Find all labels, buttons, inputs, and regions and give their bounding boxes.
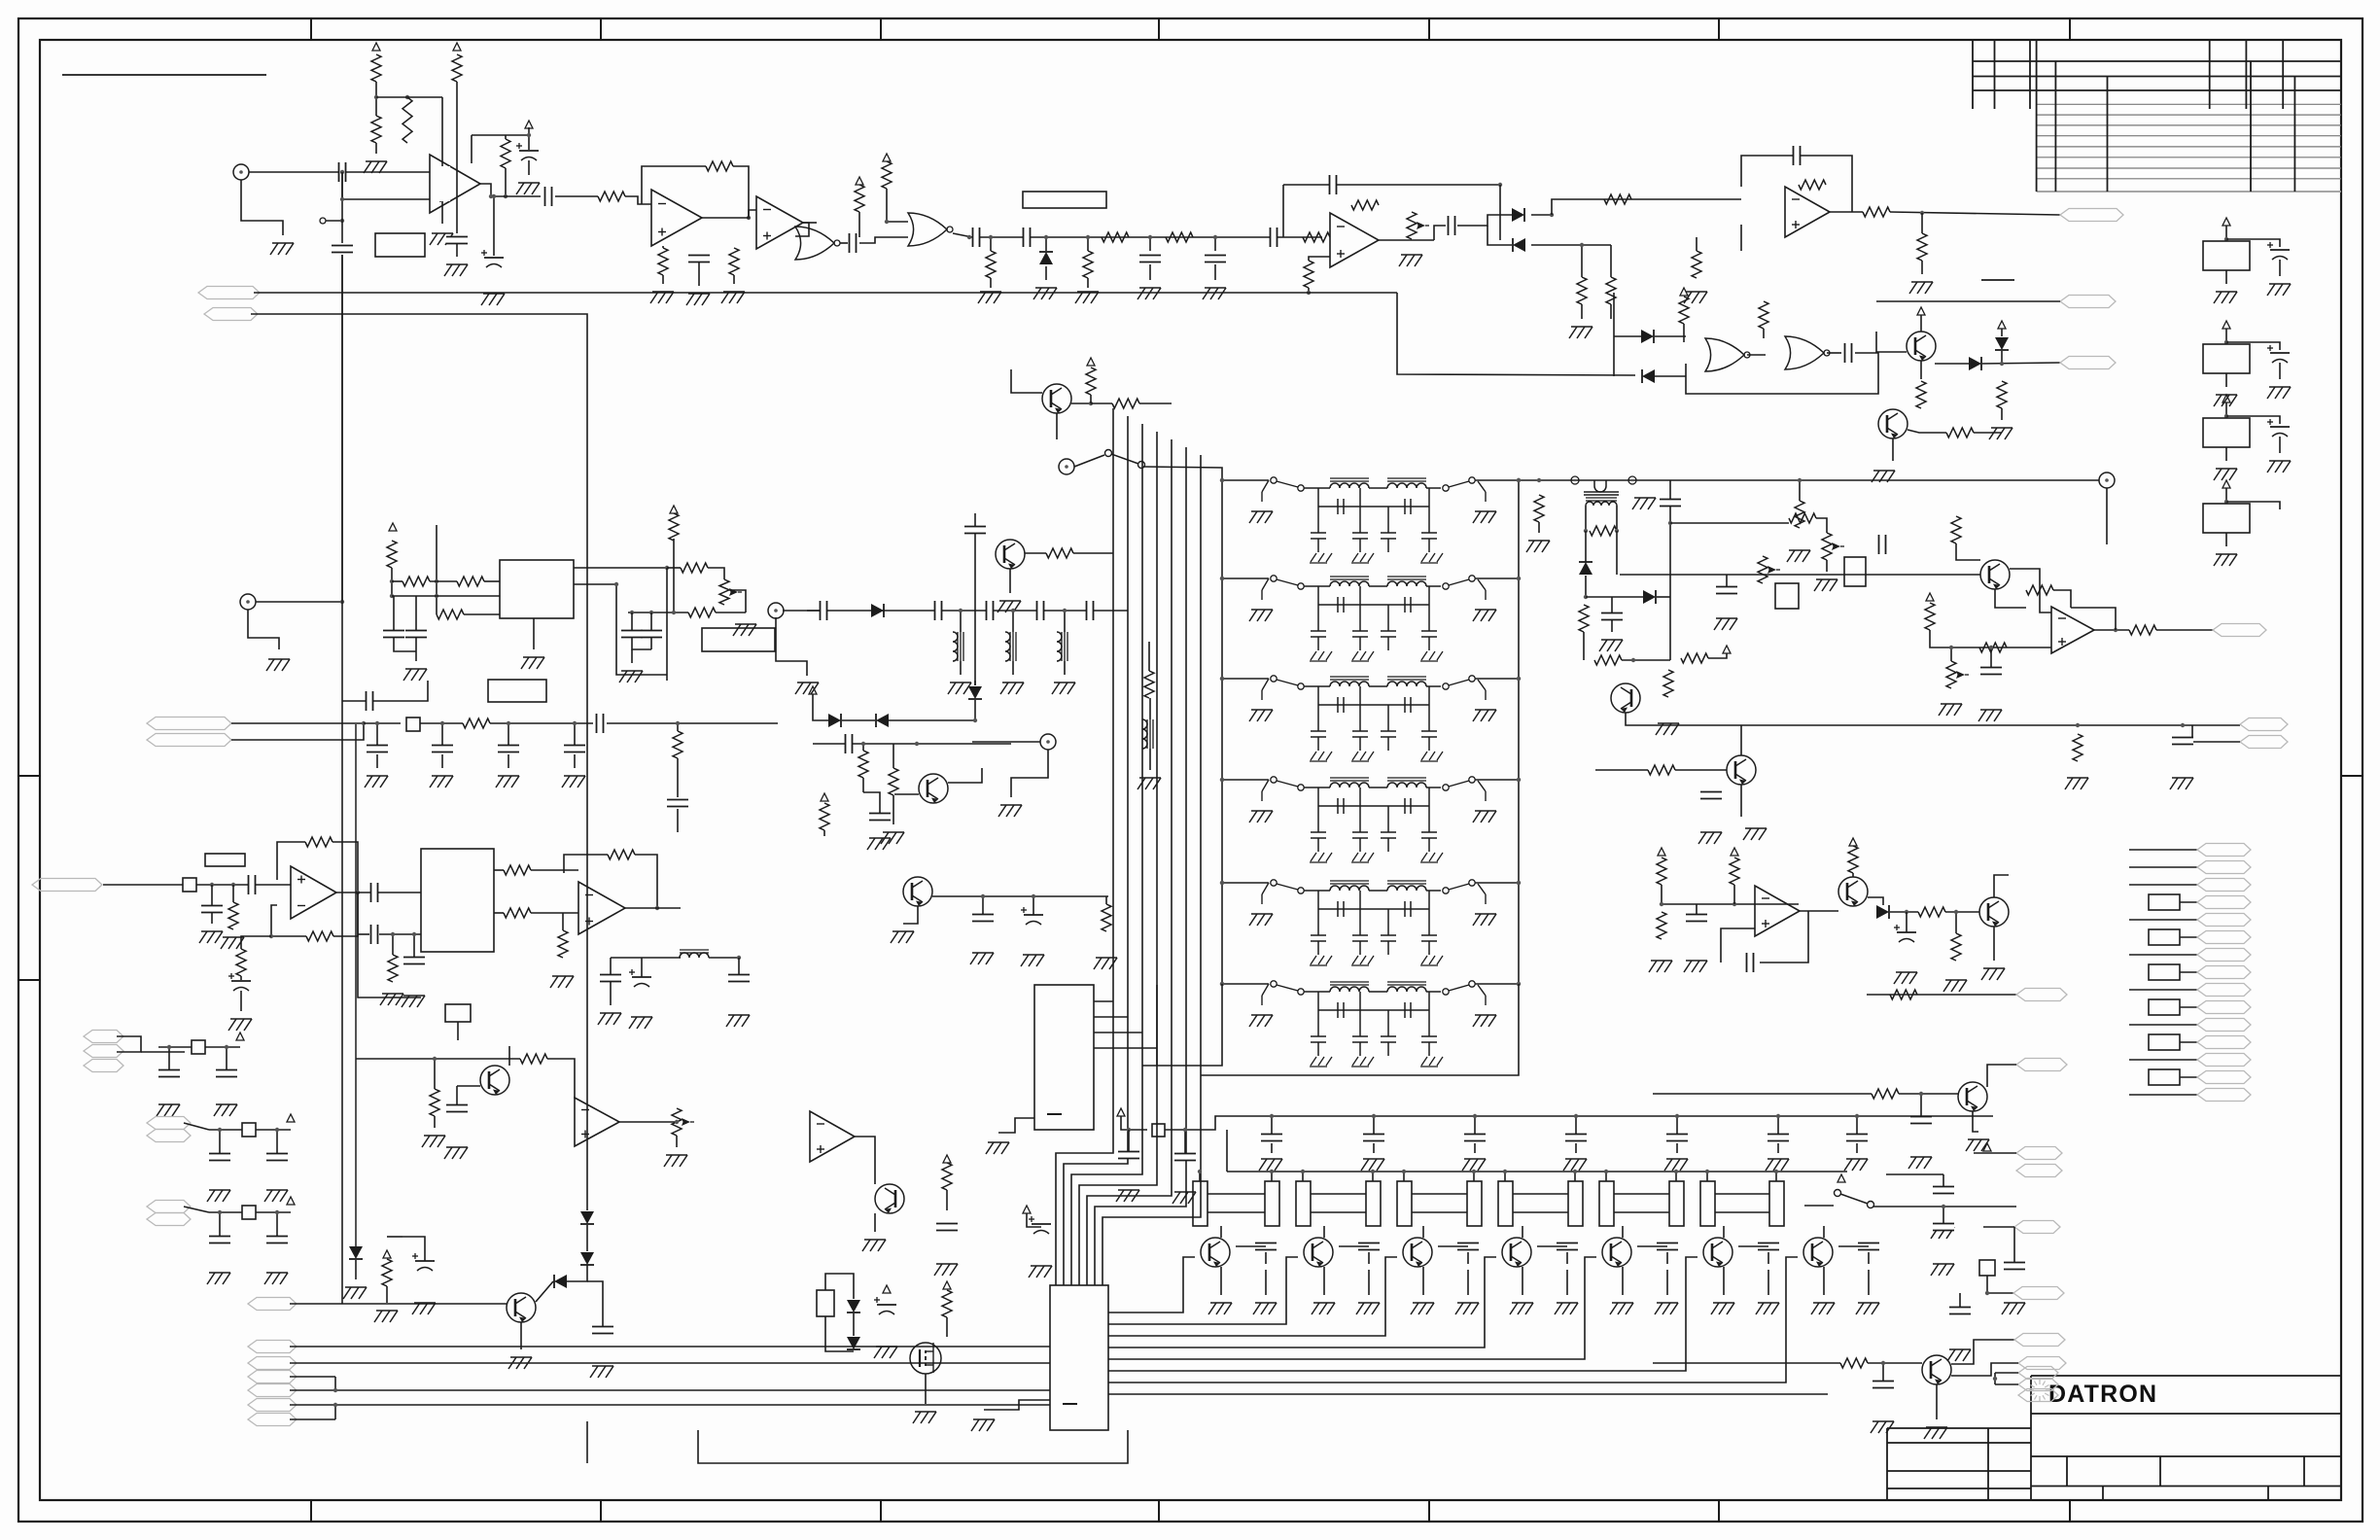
ground — [1766, 1159, 1789, 1171]
junction — [269, 934, 273, 938]
wire — [2226, 502, 2280, 509]
border tick left — [18, 775, 40, 777]
wire — [326, 220, 342, 222]
wire — [1868, 1362, 1922, 1364]
wire — [2013, 1227, 2015, 1263]
wire — [1683, 324, 1685, 342]
net tag N14 — [2197, 949, 2251, 962]
resistor R33 — [1663, 670, 1673, 697]
wire — [863, 792, 880, 814]
wire — [1308, 288, 1310, 293]
wire — [209, 1129, 242, 1131]
ground — [266, 659, 290, 671]
transistor Q15 — [1502, 1238, 1531, 1267]
net tag N3 — [2060, 357, 2116, 369]
resistor R47 — [2129, 625, 2156, 635]
ground — [986, 1142, 1009, 1154]
wire — [960, 611, 962, 632]
capacitor C1 — [446, 237, 468, 244]
ground — [1249, 811, 1273, 822]
junction — [507, 721, 510, 725]
wire — [729, 590, 746, 612]
capacitor C47 — [367, 691, 373, 711]
line notch — [1594, 480, 1606, 492]
wire — [1079, 432, 1157, 1285]
junction — [391, 932, 395, 936]
junction — [1270, 1170, 1274, 1173]
wire — [1800, 910, 1838, 912]
wire — [1011, 369, 1042, 393]
wire — [507, 723, 509, 745]
junction — [1402, 1170, 1406, 1173]
wire — [336, 892, 421, 893]
junction — [2114, 628, 2117, 632]
wire — [1566, 1252, 1568, 1264]
capacitor C57 — [1021, 907, 1043, 925]
wire — [1675, 769, 1727, 771]
junction — [1881, 1361, 1885, 1365]
junction — [672, 611, 676, 614]
junction — [1517, 478, 1521, 482]
wire — [2180, 971, 2197, 973]
wire — [974, 700, 976, 720]
junction — [861, 742, 865, 746]
net tag N39 — [2013, 1287, 2064, 1300]
wire — [1614, 1211, 1669, 1213]
capacitor C17 — [1845, 343, 1852, 363]
wire — [1993, 927, 1995, 961]
wire — [290, 1376, 335, 1378]
title underline — [62, 74, 266, 76]
resistor R55 — [463, 718, 490, 728]
diode D16 — [847, 1337, 860, 1349]
filter stage FL4 — [1220, 777, 1521, 862]
ground — [1649, 961, 1672, 972]
resistor R13 — [1303, 232, 1330, 242]
diode D9 — [871, 604, 884, 617]
net tag N30 — [248, 1371, 297, 1383]
wire — [1227, 1171, 1847, 1172]
junction — [573, 721, 577, 725]
net tag N48 — [147, 1117, 191, 1130]
wire — [709, 957, 739, 959]
junction — [1580, 243, 1584, 247]
net tag N2 — [2060, 296, 2116, 308]
net tag N43 — [2018, 1379, 2058, 1391]
wire — [434, 1059, 436, 1089]
component box Z17 — [406, 717, 420, 731]
resistor R61 — [388, 955, 398, 982]
wire — [1056, 408, 1113, 1285]
junction — [649, 611, 653, 614]
junction — [2224, 414, 2228, 418]
junction — [655, 906, 659, 910]
wire — [1920, 361, 1922, 379]
junction — [1675, 1114, 1679, 1118]
wire — [1108, 1257, 1798, 1382]
junction — [340, 170, 344, 174]
wire — [1823, 1267, 1825, 1295]
capacitor C62 — [874, 1297, 896, 1314]
wire — [628, 612, 688, 613]
component box Z26 — [1152, 1124, 1165, 1137]
diode D20 — [554, 1275, 567, 1288]
capacitor C88 — [1872, 1382, 1894, 1388]
resistor R79 — [942, 1163, 952, 1190]
wire — [332, 842, 358, 892]
wire — [1696, 237, 1697, 251]
resistor R59 — [306, 931, 333, 941]
junction — [1498, 183, 1502, 187]
wire — [698, 1430, 1128, 1463]
wire — [1309, 257, 1330, 261]
resistor R58 — [305, 837, 332, 847]
junction — [1063, 609, 1067, 612]
diode D11 — [876, 714, 889, 727]
junction — [1776, 1114, 1780, 1118]
gate G3 — [1705, 338, 1750, 371]
junction — [167, 1045, 171, 1049]
wire — [430, 580, 457, 582]
ground — [1814, 579, 1837, 591]
junction — [1942, 1205, 1945, 1208]
switch S0 — [320, 218, 326, 224]
power +V — [287, 1197, 295, 1205]
transistor Q3 — [1611, 683, 1640, 713]
wire — [1221, 480, 1223, 984]
resistor R40 — [1918, 907, 1945, 917]
capacitor C59 — [1660, 500, 1681, 507]
net tag N25 — [32, 879, 102, 892]
wire — [1611, 597, 1613, 612]
wire — [1271, 1172, 1273, 1181]
component box Z13 — [2149, 1034, 2180, 1050]
junction — [1044, 235, 1048, 239]
wire — [1827, 352, 1841, 354]
junction — [405, 95, 409, 99]
junction — [1307, 291, 1311, 295]
wire — [1740, 225, 1742, 251]
wire — [574, 754, 576, 768]
ground — [207, 1273, 230, 1284]
capacitor C91 — [209, 1154, 230, 1161]
junction — [1920, 211, 1924, 215]
resistor R49 — [402, 577, 430, 586]
wire — [667, 567, 681, 569]
wire — [1675, 1172, 1677, 1181]
resistor R4 — [402, 97, 412, 143]
wire — [2226, 416, 2280, 424]
ground — [934, 1264, 958, 1276]
net tag N51 — [147, 1213, 191, 1226]
wire — [117, 1036, 141, 1052]
capacitor C65 — [1261, 1135, 1282, 1141]
wire — [1823, 1226, 1825, 1238]
junction — [356, 891, 360, 894]
wire — [1740, 725, 1742, 755]
wire — [1583, 632, 1585, 660]
wire — [2129, 884, 2197, 886]
border tick top — [2069, 18, 2071, 40]
wire — [960, 661, 962, 675]
wire — [1747, 354, 1766, 356]
wire — [531, 869, 578, 871]
resistor R48 — [387, 541, 397, 568]
wire — [1983, 1226, 2014, 1228]
capacitor C71 — [1846, 1135, 1868, 1141]
ground — [1249, 710, 1273, 721]
wire — [1108, 1257, 1298, 1324]
junction — [1660, 902, 1663, 906]
capacitor C64 — [1174, 1154, 1196, 1161]
wire — [982, 896, 984, 915]
wire — [607, 722, 778, 724]
wire — [1518, 480, 1520, 984]
resistor R71 — [1102, 904, 1111, 931]
capacitor C4 — [481, 250, 504, 267]
wire — [1373, 1143, 1375, 1153]
wire — [1519, 479, 2099, 481]
junction — [1584, 529, 1588, 533]
wire — [1108, 1257, 1195, 1312]
resistor R81 — [520, 1054, 547, 1064]
wire — [990, 278, 992, 288]
wire — [1091, 402, 1112, 404]
wire — [402, 1237, 425, 1261]
wire — [677, 809, 679, 832]
wire — [984, 1400, 1050, 1410]
wire — [1585, 506, 1587, 531]
power +V — [2222, 218, 2230, 226]
wire — [2129, 1094, 2197, 1096]
wire — [1156, 985, 1158, 1066]
wire — [1920, 1094, 1922, 1117]
transistor Q23 — [1922, 1355, 1951, 1384]
wire — [1149, 264, 1151, 280]
wire — [1513, 1211, 1568, 1213]
wire — [1974, 432, 2002, 434]
ground — [1029, 1266, 1052, 1277]
resistor R56 — [673, 731, 682, 758]
net tag N50 — [147, 1201, 191, 1213]
wire — [420, 722, 463, 724]
wire — [254, 292, 1397, 294]
wire — [946, 1317, 948, 1337]
ground — [1966, 1139, 1989, 1151]
resistor R43 — [1951, 516, 1961, 543]
wire — [1723, 1226, 1725, 1238]
resistor R52 — [681, 563, 708, 573]
wire — [436, 525, 437, 614]
net tag N29 — [248, 1357, 297, 1370]
resistor R9 — [729, 248, 739, 275]
wire — [2191, 725, 2193, 742]
wire — [1412, 1193, 1467, 1195]
junction — [1517, 881, 1521, 885]
net tag N20 — [2197, 1054, 2251, 1067]
wire — [625, 907, 681, 909]
ground — [686, 294, 710, 305]
junction — [1517, 677, 1521, 681]
wire — [1148, 642, 1150, 671]
wire — [1956, 543, 1980, 560]
wire — [1930, 630, 2051, 647]
component box Z21 — [445, 1004, 471, 1022]
diode D7 — [1995, 337, 2009, 350]
wire — [625, 196, 651, 204]
ground — [1116, 1190, 1139, 1202]
ground — [422, 1136, 445, 1147]
junction — [1604, 1170, 1608, 1173]
wire — [1830, 211, 1863, 213]
trimmer RV3 wiper — [1767, 566, 1780, 574]
junction — [2181, 723, 2185, 727]
power +V — [883, 1285, 891, 1293]
resistor R23 — [1917, 233, 1927, 261]
junction — [1954, 910, 1958, 914]
test point TP4 — [1040, 734, 1056, 750]
wire — [376, 723, 378, 745]
wire — [256, 1129, 291, 1131]
wire — [1199, 1172, 1201, 1181]
wire — [1974, 1152, 2016, 1154]
wire — [1108, 1257, 1397, 1336]
wire — [974, 513, 976, 526]
wire — [1090, 395, 1092, 403]
wire — [387, 1236, 402, 1238]
trimmer RV2 wiper — [1832, 542, 1844, 550]
junction — [440, 721, 444, 725]
net tag N6 — [2016, 989, 2067, 1001]
ground — [629, 1017, 652, 1029]
resistor R19 — [1577, 277, 1587, 304]
resistor R1 — [371, 54, 381, 82]
test point TP1 — [233, 164, 249, 180]
resistor R38 — [1657, 912, 1666, 939]
wire — [610, 958, 612, 974]
wire — [1990, 647, 1992, 668]
wire — [567, 1265, 587, 1281]
ground — [516, 183, 540, 194]
ground — [403, 669, 427, 681]
wire — [1856, 1116, 1858, 1134]
DATRON logo text — [2048, 1381, 2157, 1408]
wire — [1323, 1226, 1325, 1238]
ground — [1021, 955, 1044, 966]
resistor R25 — [1692, 251, 1701, 278]
wire — [1473, 1172, 1475, 1181]
wire — [702, 210, 756, 218]
ground — [913, 1412, 936, 1423]
inductor L3 — [1057, 632, 1067, 661]
wire — [1951, 1363, 2018, 1376]
wire — [219, 1130, 221, 1154]
capacitor C81 — [412, 1253, 435, 1271]
wire — [1522, 1267, 1523, 1295]
ground — [1711, 1303, 1734, 1314]
net tag N9 — [2197, 861, 2251, 874]
ground — [221, 937, 244, 949]
ground — [998, 805, 1022, 817]
capacitor C89 — [158, 1070, 180, 1077]
capacitor C10 — [1024, 227, 1031, 247]
wire — [733, 275, 735, 284]
wire — [616, 584, 667, 675]
wire — [2180, 1006, 2197, 1008]
wire — [1139, 402, 1172, 404]
wire — [415, 596, 417, 630]
border tick top — [1158, 18, 1160, 40]
ground — [343, 1287, 367, 1299]
wire — [1626, 713, 2240, 725]
capacitor C23 — [1700, 792, 1722, 799]
transistor Q2 — [1878, 409, 1907, 438]
component box Z10 — [2149, 929, 2180, 945]
wire — [1575, 1143, 1577, 1153]
junction — [1985, 1291, 1989, 1295]
wire — [209, 1211, 242, 1213]
wire — [392, 580, 402, 582]
transistor Q14 — [1403, 1238, 1432, 1267]
wire — [1733, 885, 1735, 904]
junction — [1584, 595, 1588, 599]
wire — [1614, 1193, 1669, 1195]
wire — [611, 957, 681, 959]
wire — [1149, 237, 1151, 251]
wire — [1715, 1211, 1769, 1213]
wire — [1201, 984, 1519, 1075]
ground — [1931, 1227, 1954, 1239]
capacitor C22 — [2172, 738, 2193, 745]
wire — [1738, 1245, 1768, 1247]
wire — [232, 885, 234, 902]
wire — [341, 172, 343, 199]
wire — [1715, 1193, 1769, 1195]
net tag N22 — [2197, 1089, 2251, 1102]
transistor Q5 — [1838, 877, 1868, 906]
wire — [2279, 260, 2281, 276]
junction — [435, 594, 438, 598]
wire — [842, 719, 875, 721]
wire — [1095, 447, 1186, 1285]
wire — [241, 180, 283, 235]
wire — [783, 610, 822, 612]
junction — [1550, 213, 1554, 217]
wire — [2001, 408, 2003, 420]
capacitor C26 — [1894, 925, 1916, 942]
capacitor C38 — [201, 906, 223, 913]
resistor R35 — [1648, 765, 1675, 775]
dash mark — [1981, 279, 2014, 281]
wire — [1585, 531, 1587, 562]
capacitor C13 — [1205, 256, 1226, 262]
wire — [586, 1225, 588, 1251]
wire — [1868, 1270, 1870, 1295]
wire — [1012, 611, 1014, 632]
border tick top — [1428, 18, 1430, 40]
wire — [256, 601, 342, 603]
wire — [1662, 885, 1799, 904]
wire — [1876, 300, 2060, 302]
power +V — [525, 121, 533, 128]
component box Z29 — [1296, 1181, 1311, 1226]
transformer T1 — [1586, 498, 1617, 506]
capacitor C44 — [600, 975, 621, 982]
junction — [1517, 778, 1521, 782]
net tag N10 — [2197, 879, 2251, 892]
capacitor C51 — [987, 601, 994, 620]
power +V — [1917, 307, 1925, 315]
